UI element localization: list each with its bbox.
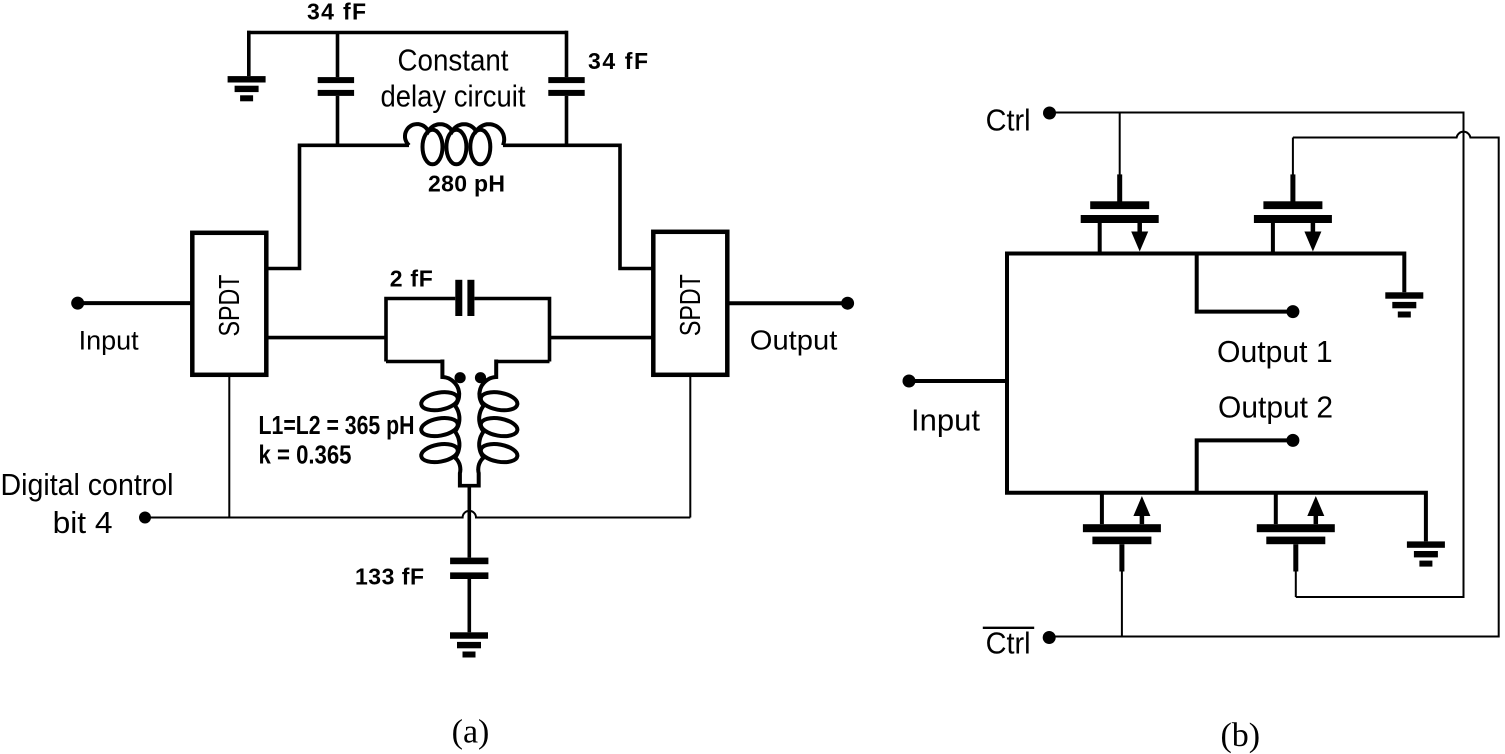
wire Q2 gate riser (1292, 138, 1294, 177)
wire digital control bit 4 with hop over center tap (147, 511, 690, 518)
terminal dot Input (a) (71, 297, 84, 310)
inductor L1 (transformer left winding) (420, 360, 461, 488)
svg-text:2 fF: 2 fF (390, 266, 433, 292)
svg-text:Input: Input (79, 325, 140, 355)
wire Q3 gate drop (1121, 570, 1123, 637)
capacitor C3 2 fF (vertical plates) (455, 280, 474, 316)
wire input (b) (911, 379, 1007, 383)
transformer center tap U (458, 484, 480, 488)
wire right riser to SPDT2 (620, 144, 653, 269)
ground G2 (upper right) (1385, 292, 1423, 317)
transistor Q3 (1083, 493, 1161, 572)
svg-text:L1=L2 = 365 pH: L1=L2 = 365 pH (259, 412, 415, 440)
terminal dot Output 1 (1286, 305, 1299, 318)
svg-text:Output 1: Output 1 (1217, 334, 1333, 369)
capacitor C1 34 fF left: top lead (336, 33, 340, 78)
label Ctrl-bar with overline (983, 627, 1034, 629)
wire delay line left (300, 144, 410, 148)
ground G3 (lower right) (1407, 541, 1445, 566)
terminal dot Input (b) (903, 375, 916, 388)
wire input (80, 301, 192, 305)
transistor Q4 (1257, 493, 1335, 572)
svg-text:133 fF: 133 fF (355, 564, 424, 590)
svg-text:Digital control: Digital control (1, 467, 174, 502)
wire top horizontal (34fF net) (247, 31, 567, 35)
terminal dot Digital control bit 4 (139, 512, 151, 524)
svg-text:Output: Output (750, 324, 838, 355)
wire Q4 gate drop (1295, 570, 1297, 597)
svg-text:(a): (a) (452, 714, 490, 751)
SPDT switch U1 (left) (192, 233, 266, 375)
svg-text:Ctrl: Ctrl (986, 102, 1031, 137)
terminal dot Output (a) (841, 297, 854, 310)
wire Ctrl net: top run, right bus down, to Q4 gate (1051, 113, 1464, 598)
wire SPDT1 control drop (thin) (228, 375, 230, 518)
svg-text:Constant: Constant (398, 43, 509, 78)
svg-text:34 fF: 34 fF (588, 48, 648, 74)
inductor L3 280 pH (405, 124, 504, 164)
svg-text:(b): (b) (1220, 717, 1260, 754)
wire 133fF to ground (467, 579, 471, 632)
svg-text:k = 0.365: k = 0.365 (259, 442, 352, 470)
svg-text:bit 4: bit 4 (53, 505, 113, 540)
transistor Q1 (1081, 174, 1159, 253)
terminal dot Output 2 (1286, 434, 1299, 447)
svg-text:Output 2: Output 2 (1218, 390, 1333, 425)
transformer polarity dot left (455, 372, 466, 383)
ground G4 (bottom center) (450, 632, 488, 657)
wire ground stem top-left (247, 31, 249, 76)
capacitor C1 bottom lead (336, 96, 340, 145)
wire SPDT1 to 2fF block (266, 336, 386, 340)
svg-text:Ctrl: Ctrl (986, 626, 1031, 661)
wire left riser to SPDT1 (266, 144, 299, 269)
wire Output 1 branch (1197, 254, 1288, 312)
capacitor C2 34 fF right: top lead (565, 31, 569, 77)
wire 2fF block to SPDT2 (550, 336, 654, 340)
svg-text:34 fF: 34 fF (307, 0, 366, 25)
wire SPDT2 control drop (thin) (689, 375, 691, 518)
terminal dot Ctrl (1043, 107, 1056, 120)
wire output (728, 301, 846, 305)
transformer polarity dot right (475, 372, 486, 383)
wire center tap down to 133fF cap (467, 486, 471, 558)
capacitor C2 34 fF plates (548, 77, 584, 96)
inductor L2 (transformer right winding) (478, 360, 519, 488)
terminal dot Ctrl-bar (1043, 631, 1056, 644)
transistor Q2 (1254, 174, 1332, 253)
capacitor C4 133 fF plates (450, 558, 488, 579)
svg-text:SPDT: SPDT (214, 274, 246, 336)
SPDT switch U2 (right) (653, 232, 727, 375)
wire Output 2 branch (1197, 440, 1288, 492)
svg-text:SPDT: SPDT (675, 274, 707, 336)
svg-text:Input: Input (911, 403, 980, 438)
2 fF parallel block outline (386, 297, 550, 362)
wire Ctrl-bar net: bottom run, right bus up, Q2 gate run with hop (1051, 132, 1499, 637)
ground G1 (top left) (228, 76, 266, 101)
svg-text:280 pH: 280 pH (428, 171, 505, 197)
capacitor C2 bottom lead (565, 96, 569, 145)
svg-text:delay circuit: delay circuit (381, 79, 526, 114)
wire delay line right (503, 144, 620, 148)
wire Q1 gate riser (1119, 113, 1121, 177)
capacitor C1 34 fF plates (318, 77, 354, 96)
wire main loop: top rail, input bus, bottom rail (1007, 254, 1426, 542)
